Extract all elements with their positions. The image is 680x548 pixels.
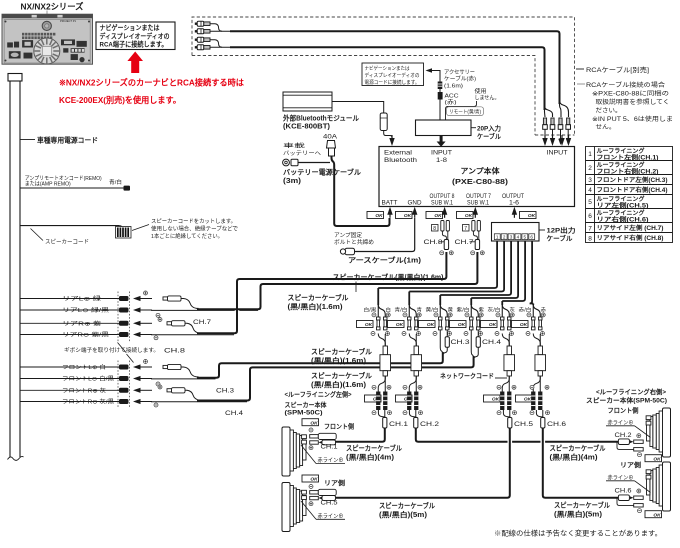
svg-text:バッテリーへ: バッテリーへ	[283, 150, 322, 157]
svg-text:(1.6m): (1.6m)	[444, 83, 463, 89]
svg-text:INPUT: INPUT	[547, 151, 568, 157]
svg-text:INPUT: INPUT	[431, 151, 452, 157]
svg-text:CH.1: CH.1	[321, 445, 339, 451]
svg-text:スピーカーケーブル: スピーカーケーブル	[379, 501, 435, 510]
svg-text:CH.7: CH.7	[193, 319, 211, 326]
svg-text:(SPM-50C): (SPM-50C)	[285, 410, 323, 417]
svg-text:灰: 灰	[510, 307, 516, 314]
svg-text:電源コードに接続します。: 電源コードに接続します。	[365, 79, 420, 86]
svg-text:青/白: 青/白	[395, 307, 408, 314]
svg-text:※配線の仕様は予告なく変更することがあります。: ※配線の仕様は予告なく変更することがあります。	[494, 529, 662, 538]
svg-text:CH.6: CH.6	[547, 421, 566, 428]
svg-text:リモート(黄/青): リモート(黄/青)	[449, 108, 481, 115]
svg-text:SUB W.1: SUB W.1	[467, 201, 490, 207]
svg-text:リアサイド右側 (CH.8): リアサイド右側 (CH.8)	[597, 234, 664, 242]
svg-text:1: 1	[588, 151, 592, 158]
svg-text:ルーフライニング: ルーフライニング	[597, 147, 645, 155]
svg-text:バッテリー電源ケーブル: バッテリー電源ケーブル	[283, 168, 361, 177]
svg-text:(黒/黒白)(1.6m): (黒/黒白)(1.6m)	[288, 302, 343, 311]
svg-text:(赤): (赤)	[445, 98, 457, 106]
svg-text:CH.8: CH.8	[164, 348, 186, 355]
svg-text:または(AMP REMO): または(AMP REMO)	[25, 181, 71, 188]
svg-text:灰/白: 灰/白	[488, 307, 501, 314]
svg-text:取扱説明書を参照してく: 取扱説明書を参照してく	[596, 98, 670, 106]
svg-text:OUTPUT 8: OUTPUT 8	[430, 194, 456, 200]
svg-text:CH.5: CH.5	[514, 421, 533, 428]
svg-text:1-8: 1-8	[436, 158, 448, 164]
svg-text:青/白: 青/白	[109, 178, 122, 186]
svg-text:リア左側(CH.5): リア左側(CH.5)	[597, 202, 649, 210]
svg-text:ルーフライニング: ルーフライニング	[597, 161, 645, 169]
svg-text:フロント左側(CH.1): フロント左側(CH.1)	[597, 154, 659, 162]
svg-text:3: 3	[510, 235, 513, 240]
svg-text:(黒/黒白)(4m): (黒/黒白)(4m)	[550, 452, 598, 461]
svg-text:※IN PUT 5、6は使用しま: ※IN PUT 5、6は使用しま	[592, 115, 673, 123]
svg-text:黄: 黄	[448, 307, 454, 314]
svg-text:ケーブル: ケーブル	[477, 132, 501, 141]
svg-text:スピーカーケーブル: スピーカーケーブル	[288, 293, 349, 302]
svg-text:<ルーフライニング左側>: <ルーフライニング左側>	[285, 390, 352, 399]
svg-text:12P出力: 12P出力	[547, 226, 577, 235]
svg-text:スピーカー本体: スピーカー本体	[285, 400, 327, 409]
svg-text:リアR⊕ 紫: リアR⊕ 紫	[62, 321, 102, 328]
svg-text:スピーカーケーブル: スピーカーケーブル	[346, 444, 402, 453]
svg-text:CH.2: CH.2	[420, 421, 439, 428]
svg-text:赤ライン⊕: 赤ライン⊕	[318, 512, 344, 520]
svg-text:※PXE-C80-88に同梱の: ※PXE-C80-88に同梱の	[592, 90, 669, 98]
svg-text:ディスプレイオーディオの: ディスプレイオーディオの	[100, 31, 170, 40]
svg-text:7: 7	[588, 226, 592, 233]
svg-text:赤ライン⊕: 赤ライン⊕	[318, 456, 344, 464]
svg-text:スピーカーコード: スピーカーコード	[45, 239, 89, 246]
svg-text:CH.4: CH.4	[225, 410, 243, 417]
svg-text:8: 8	[588, 236, 592, 243]
svg-text:CH.1: CH.1	[389, 421, 408, 428]
svg-text:20P入力: 20P入力	[477, 124, 501, 133]
svg-text:使用しない場合、絶縁テープなどで: 使用しない場合、絶縁テープなどで	[151, 225, 238, 233]
svg-text:紫/白: 紫/白	[457, 307, 470, 314]
svg-text:青: 青	[417, 307, 423, 314]
svg-text:フロント側: フロント側	[608, 406, 639, 415]
svg-text:フロント側: フロント側	[324, 422, 354, 431]
svg-text:BATT: BATT	[382, 201, 398, 207]
svg-text:3: 3	[588, 177, 592, 184]
svg-text:CH.3: CH.3	[451, 339, 470, 346]
svg-text:フロント右側(CH.2): フロント右側(CH.2)	[597, 168, 659, 176]
svg-text:NX/NX2シリーズ: NX/NX2シリーズ	[21, 2, 84, 12]
svg-text:スピーカーケーブル: スピーカーケーブル	[550, 443, 606, 452]
svg-text:4: 4	[588, 187, 592, 194]
svg-text:SUB W.1: SUB W.1	[431, 201, 454, 207]
svg-text:RCAケーブル接続の場合: RCAケーブル接続の場合	[586, 81, 665, 89]
svg-text:スピーカーケーブル(黒/黒白)(1.6m): スピーカーケーブル(黒/黒白)(1.6m)	[333, 273, 444, 282]
svg-text:(KCE-800BT): (KCE-800BT)	[283, 124, 330, 131]
svg-text:使用: 使用	[475, 87, 487, 95]
svg-text:OUTPUT: OUTPUT	[502, 194, 524, 200]
svg-text:アンプ固定: アンプ固定	[334, 231, 363, 239]
svg-text:しません。: しません。	[475, 95, 500, 102]
svg-text:CH.5: CH.5	[321, 501, 339, 507]
svg-text:リアR⊖ 紫/黒: リアR⊖ 紫/黒	[62, 332, 110, 339]
svg-text:PROJECT P1: PROJECT P1	[60, 19, 77, 23]
svg-text:CH.2: CH.2	[615, 433, 633, 439]
svg-text:赤/白: 赤/白	[519, 307, 532, 314]
svg-text:1-6: 1-6	[509, 201, 520, 207]
svg-text:CH.7: CH.7	[455, 239, 474, 246]
svg-text:CH.8: CH.8	[424, 239, 443, 246]
svg-text:スピーカーケーブル: スピーカーケーブル	[554, 500, 610, 509]
svg-text:RCAケーブル[別売]: RCAケーブル[別売]	[586, 65, 649, 74]
svg-text:CH.6: CH.6	[615, 489, 633, 495]
svg-text:ネットワークコード: ネットワークコード	[440, 371, 494, 380]
svg-text:5: 5	[524, 235, 527, 240]
svg-text:4: 4	[517, 235, 520, 240]
svg-text:フロントドア左側(CH.3): フロントドア左側(CH.3)	[597, 176, 668, 184]
svg-text:Bluetooth: Bluetooth	[384, 158, 417, 164]
svg-text:白: 白	[386, 307, 392, 314]
svg-text:ルーフライニング: ルーフライニング	[597, 209, 645, 217]
svg-text:KCE-200EX(別売)を使用します。: KCE-200EX(別売)を使用します。	[59, 95, 181, 105]
svg-text:赤ライン⊕: 赤ライン⊕	[608, 473, 634, 481]
svg-text:GND: GND	[408, 201, 423, 207]
svg-text:ACC: ACC	[445, 94, 459, 100]
svg-text:(黒/黒白)(1.6m): (黒/黒白)(1.6m)	[311, 380, 366, 389]
svg-text:スピーカー本体(SPM-50C): スピーカー本体(SPM-50C)	[586, 396, 667, 405]
svg-text:※NX/NX2シリーズのカーナビとRCA接続する時は: ※NX/NX2シリーズのカーナビとRCA接続する時は	[59, 78, 244, 88]
svg-text:外部Bluetoothモジュール: 外部Bluetoothモジュール	[283, 114, 359, 123]
svg-text:ケーブル: ケーブル	[547, 234, 573, 243]
svg-text:OUTPUT 7: OUTPUT 7	[466, 194, 492, 200]
svg-text:2: 2	[588, 165, 592, 172]
svg-text:リア側: リア側	[620, 460, 642, 469]
svg-text:車種専用電源コード: 車種専用電源コード	[37, 136, 98, 145]
svg-text:7: 7	[464, 226, 467, 232]
svg-text:RCA端子に接続します。: RCA端子に接続します。	[100, 40, 168, 49]
svg-text:40A: 40A	[323, 134, 338, 141]
svg-text:ギボシ端子を取り付けて接続します。: ギボシ端子を取り付けて接続します。	[64, 346, 159, 354]
svg-text:スピーカーケーブル: スピーカーケーブル	[311, 371, 372, 380]
svg-text:リアサイド左側 (CH.7): リアサイド左側 (CH.7)	[597, 224, 664, 232]
svg-text:(黒/黒白)(4m): (黒/黒白)(4m)	[346, 453, 394, 462]
svg-text:(PXE-C80-88): (PXE-C80-88)	[452, 177, 509, 186]
svg-text:せん。: せん。	[596, 124, 616, 131]
svg-text:5: 5	[588, 199, 592, 206]
svg-text:ディスプレイオーディオの: ディスプレイオーディオの	[365, 72, 420, 79]
svg-text:アクセサリー: アクセサリー	[444, 69, 475, 76]
svg-text:リア側: リア側	[324, 478, 346, 487]
svg-text:8: 8	[433, 226, 436, 232]
svg-text:赤ライン⊕: 赤ライン⊕	[608, 418, 634, 426]
svg-text:リア右側(CH.6): リア右側(CH.6)	[597, 216, 649, 224]
svg-text:1: 1	[496, 235, 499, 240]
svg-text:スピーカーコードをカットします。: スピーカーコードをカットします。	[151, 218, 236, 225]
svg-text:アンプ本体: アンプ本体	[461, 166, 501, 176]
svg-text:ケーブル(赤): ケーブル(赤)	[444, 75, 476, 83]
svg-text:1本ごとに絶縁してください。: 1本ごとに絶縁してください。	[151, 232, 223, 240]
svg-text:6: 6	[530, 235, 533, 240]
svg-text:<ルーフライニング右側>: <ルーフライニング右側>	[596, 387, 666, 396]
svg-text:黄/白: 黄/白	[426, 307, 439, 314]
svg-text:白/黒: 白/黒	[364, 307, 377, 314]
svg-text:ナビゲーションまたは: ナビゲーションまたは	[365, 65, 410, 72]
svg-text:(3m): (3m)	[283, 178, 301, 185]
svg-text:フロントドア右側(CH.4): フロントドア右側(CH.4)	[597, 186, 668, 194]
svg-text:車載: 車載	[283, 142, 306, 150]
svg-text:CH.4: CH.4	[482, 339, 501, 346]
svg-text:アースケーブル(1m): アースケーブル(1m)	[348, 256, 421, 265]
svg-text:ルーフライニング: ルーフライニング	[597, 195, 645, 203]
svg-text:ボルトと共締め: ボルトと共締め	[334, 238, 374, 246]
svg-text:External: External	[384, 151, 412, 157]
svg-text:ださい。: ださい。	[596, 108, 622, 115]
svg-text:2: 2	[503, 235, 506, 240]
svg-text:(黒/黒白)(5m): (黒/黒白)(5m)	[554, 509, 602, 518]
svg-text:ナビゲーションまたは: ナビゲーションまたは	[100, 23, 160, 32]
svg-text:CH.3: CH.3	[216, 387, 234, 394]
svg-text:6: 6	[588, 213, 592, 220]
svg-text:(黒/黒白)(5m): (黒/黒白)(5m)	[379, 510, 427, 519]
svg-text:(黒/黒白)(1.6m): (黒/黒白)(1.6m)	[311, 356, 366, 365]
svg-text:スピーカーケーブル: スピーカーケーブル	[311, 347, 372, 356]
